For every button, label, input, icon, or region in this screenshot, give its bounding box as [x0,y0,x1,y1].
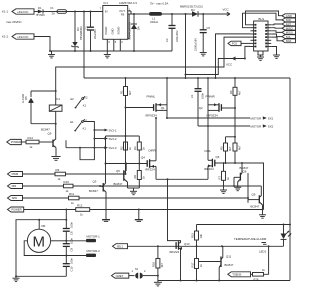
junction midline/led col [283,224,285,226]
svg-text:+6/24 DC: +6/24 DC [17,10,28,14]
junction lineB/Q2 drain [207,125,209,127]
svg-text:LL4148: LL4148 [21,94,25,103]
wire D1 to F1 [43,11,57,13]
svg-text:GND: GND [110,28,114,34]
junction right pair link [234,136,236,138]
flag SV2-1 [104,128,117,132]
wire DIR line across [73,185,261,187]
junction Ra/Rb link [125,135,127,137]
resistor R10 1k [64,180,74,193]
wire right pair link [226,136,236,138]
junction riser/pwm line [125,173,127,175]
svg-text:P6SMB30A: P6SMB30A [79,26,83,40]
svg-text:K1: K1 [83,127,87,131]
svg-text:BU1: BU1 [259,17,265,21]
wire flag MISO [271,27,282,30]
svg-text:E1: E1 [70,120,74,124]
wire CMET to SJ [129,275,135,277]
resistor R1 4k7 pullup [119,78,132,108]
junction alarm/R18 riser [268,245,270,247]
junction rail/left bus [15,275,17,277]
gnd Q8 emitter [234,187,241,190]
junction out/D4 [133,13,135,15]
svg-text:R15: R15 [190,233,194,238]
BU1 pin squares right column [265,24,267,47]
vcc feed down from output [185,14,187,78]
svg-text:BC847: BC847 [114,182,123,186]
resistor R4 4k7 pullup [229,78,242,108]
svg-text:BC847: BC847 [251,205,260,209]
wire R14 to Q9 base [39,141,53,143]
svg-text:DIR: DIR [12,184,17,188]
resistor R18 1k [253,268,266,281]
junction rail/sense [215,77,217,79]
svg-text:LM2574M-3.3: LM2574M-3.3 [119,1,137,5]
wire BU1 to relay feed [56,37,251,105]
svg-text:K1-1: K1-1 [2,10,8,14]
IC1 box LM2574M-3.3 [100,1,138,39]
junction gatelineR/R7 [223,162,225,164]
svg-text:K1-2: K1-2 [2,35,8,39]
ground bottom rail [154,281,162,286]
junction motor stem [38,219,40,221]
svg-text:SCL: SCL [286,35,292,39]
gnd right local [220,188,227,193]
gnd left local [130,188,137,195]
junction DIR/Q3 base [99,185,101,187]
wire switch B to SV2 column [80,122,94,160]
junction gatelineR/Q8 collector [241,162,243,164]
junction capbus/power line [65,209,67,211]
junction alarm/R16 [157,245,159,247]
LED1 [281,225,292,247]
junction capbus/top wire [65,219,67,221]
svg-text:SPD: SPD [12,196,18,200]
junction alarm/Q11 collector [221,245,223,247]
resistor R9 1k [55,168,66,181]
junction relay/D5 top [55,90,57,92]
svg-text:3A: 3A [52,12,55,16]
wire flag MOSI [271,31,282,33]
svg-text:10k: 10k [199,234,203,239]
svg-text:Q2: Q2 [199,106,203,110]
stub Q3 base [100,185,103,188]
BU1 right pin gnd [271,47,280,59]
wire vcc feed to BU1 [186,46,251,74]
wire D2 to VCC arrow [198,13,226,15]
stub above SV2-3 line [65,140,67,147]
wire L1 to D2 [162,13,192,15]
svg-text:GND: GND [286,14,292,18]
svg-text:R18: R18 [254,278,259,282]
svg-text:C10: C10 [70,266,74,271]
wire relay to Q9 [55,111,57,139]
junction capbus/motor right [65,240,67,242]
svg-text:4k7: 4k7 [237,90,241,95]
flag RST right [282,22,296,26]
gate line lower right [215,163,264,210]
flag CMET [112,273,129,278]
svg-text:MOTOR: MOTOR [251,116,262,120]
mosfet Q13 IRFZ24 [170,241,190,280]
svg-text:R3: R3 [133,146,137,150]
svg-text:C5: C5 [207,26,211,30]
junction lineA/Q4 drain [155,117,157,119]
svg-text:Q4: Q4 [141,156,145,160]
wire R18 riser [264,246,269,274]
wire flag SDA [271,37,282,41]
svg-text:Q3: Q3 [93,180,97,184]
svg-text:MOSI: MOSI [286,31,293,35]
wire D5 top branch [31,90,56,92]
resistor R3 [133,136,146,164]
resistor R11 1k [69,192,80,205]
svg-text:PC5: PC5 [232,42,238,46]
svg-text:C1: C1 [190,94,194,98]
svg-text:D2: D2 [84,96,88,100]
transistor Q8 BC847 upper [234,163,249,187]
ground bottom left [13,276,20,281]
wire SJ to R16 col [143,275,158,277]
svg-text:D1: D1 [84,119,88,123]
junction srcline/gnd drop [167,178,169,180]
transistor Q3 BC847 [89,136,106,219]
right bus vertical [289,78,291,281]
svg-text:Q1: Q1 [161,106,165,110]
motor line A [167,117,250,119]
svg-text:C3: C3 [85,26,89,30]
wire TSENS to R18 [251,273,253,275]
junction rail/vcc feed [185,77,187,79]
svg-text:R6: R6 [133,175,137,179]
svg-text:SDA: SDA [286,39,292,43]
wire R9 to Q5 base / riser [66,173,126,175]
gnd rail top [50,50,172,52]
flag TSENS [228,272,251,277]
wire flag DIR to R10 [23,185,64,187]
svg-text:Q8: Q8 [243,170,247,174]
wire SV2-3 line [66,147,104,149]
svg-text:R7: R7 [217,176,221,180]
svg-text:TSENS: TSENS [232,273,241,277]
flag DIR left [8,184,23,189]
flag SEL1 [113,244,128,249]
svg-text:MISO: MISO [286,27,293,31]
svg-text:Q5: Q5 [116,169,120,173]
svg-text:R11: R11 [69,192,74,196]
transistor Q5 BC847 [114,164,128,189]
junction gatelineR/R5 [225,162,227,164]
junction lineA/Q1 drain [166,117,168,119]
wire POWER2 line across [90,209,263,211]
svg-text:E2: E2 [71,97,75,101]
svg-text:SGND: SGND [117,27,121,35]
svg-text:Q9: Q9 [252,193,256,197]
junction SJ/R16 col [157,275,159,277]
svg-text:R10: R10 [64,180,70,184]
VCC arrow top [223,8,231,16]
junction vcc arrow branch [244,58,246,60]
svg-text:RST: RST [286,22,292,26]
junction gatelineL/column [125,163,127,165]
diode D5 [21,91,34,124]
svg-text:R5: R5 [219,146,223,150]
svg-text:IRFZ24: IRFZ24 [170,250,180,254]
svg-text:SV2-2: SV2-2 [109,137,117,141]
IC1 output pins right [128,11,131,38]
svg-text:LED1: LED1 [259,250,267,254]
connector BU1 box [254,17,268,51]
capacitor C5 2200u/16V [194,14,211,53]
junction gatelineL/Q5 collector [125,163,127,165]
svg-text:C2: C2 [165,38,169,42]
svg-text:D4: D4 [137,26,141,30]
junction rail/C3 [90,50,92,52]
junction rail/Q13 src [180,280,182,282]
ground symbol left [48,51,55,58]
source line lower left [156,178,208,180]
junction out/C5 [202,13,204,15]
resistor R8 [233,143,241,163]
wire F1 to IC1 [67,11,103,13]
svg-text:Q6: Q6 [216,155,220,159]
flag PWM left [8,172,23,177]
junction rail/Q1 [166,77,168,79]
hbridge supply rail [84,77,290,79]
motor M1 XM [27,220,50,253]
junction rail/Q11 emitter [218,280,220,282]
svg-text:D1: D1 [38,6,42,10]
ground symbol under IC1 [104,51,111,58]
VCC arrow mid [226,57,245,67]
motor right lead [51,240,67,242]
svg-text:+6/24 DC: +6/24 DC [17,35,28,39]
svg-text:Q13: Q13 [184,242,190,246]
junction rail/R4 [234,77,236,79]
wire DIR to Q10 collector [260,185,263,187]
svg-text:BC847: BC847 [225,263,234,267]
junction column / SV2-3 [93,147,95,149]
solder jumper SJ1 [132,267,147,279]
BU1 pin squares left column [255,24,257,47]
wire K1-2 to gnd rail [34,37,50,52]
svg-text:R4: R4 [229,90,233,94]
wire K1-1 to D1 [34,11,38,13]
mosfet Q2 IRF9Z34 [199,78,235,126]
wire MOTOR-1 tag [66,240,86,242]
resistor R6 [133,164,146,189]
TVS diode D3 P6SMB30A [72,12,83,52]
resistor R7 sense [217,163,230,188]
mosfet Q4 IRFZ24 [141,118,156,179]
svg-text:BC847: BC847 [89,189,98,193]
svg-text:2200u/16V: 2200u/16V [194,38,198,51]
ground Q9 [51,157,60,161]
svg-text:SX1: SX1 [268,116,274,120]
motor line B [198,125,250,127]
flag MOTOR_SX2 [251,124,274,128]
svg-text:100n: 100n [201,93,205,99]
bottom rail right [158,280,290,282]
wire BU1 sense down to rail [216,34,251,78]
junction rail/D3 [74,50,76,52]
junction rail/K1-2 [49,50,51,52]
wire SV2-2 branch [94,138,104,140]
junction gatelineL/R3 [138,163,140,165]
alarm pointer mark [262,243,267,245]
resistor R14 1k [26,136,39,149]
mosfet Q6 IRFZ24 [204,126,220,179]
svg-text:POWER: POWER [11,140,21,144]
svg-text:MOTOR-1: MOTOR-1 [87,234,101,238]
flag SV2-3 [104,146,117,150]
svg-text:IN: IN [105,10,108,14]
wire SV2-1 branch [94,129,104,131]
junction U box / SV2-3 [79,147,81,149]
flag MOTOR_SX1 [251,116,274,120]
svg-text:C6: C6 [70,231,74,235]
svg-text:IRFZ24: IRFZ24 [145,168,155,172]
flag SV2-2 [104,137,117,141]
wire MOTOR-2 tag [66,255,86,257]
svg-text:4k7: 4k7 [228,146,232,151]
cap bus vertical top stub [65,210,67,229]
svg-text:K1: K1 [57,97,61,101]
svg-text:POWER: POWER [11,208,21,212]
capacitor C10 100n [63,258,74,277]
local gnd left emitter line [128,187,140,189]
svg-text:VCC: VCC [223,8,229,12]
flag POWER left [7,139,21,144]
resistor R16 4k7 [152,246,165,280]
svg-text:PWMR: PWMR [206,95,215,99]
junction emitter col/line4 [262,209,264,211]
svg-text:Q9: Q9 [48,132,52,136]
svg-text:FB: FB [121,13,125,17]
svg-text:MOTOR: MOTOR [251,124,262,128]
junction alarm/R15 col [196,245,198,247]
svg-text:MOTOR-2: MOTOR-2 [87,249,101,253]
svg-text:TEMPERATURE ALARM: TEMPERATURE ALARM [234,237,267,241]
junction rail/R1 [125,77,127,79]
flag MOSI right [282,31,296,35]
motor top wire [16,220,66,277]
flag SCL right [282,35,296,39]
svg-text:DIRR: DIRR [149,149,156,153]
junction gatelineL/Q3 riser [105,163,107,165]
svg-text:IRF9Z34: IRF9Z34 [207,114,219,118]
flag GND right [282,14,296,18]
junction column / SV2-2 [93,138,95,140]
flag POWER2 left [8,207,24,212]
transistor Q11 BC847 [199,246,234,280]
BU1 left pin stubs [251,25,255,47]
capacitor C6 100n [63,222,74,244]
svg-text:PGND: PGND [104,27,108,35]
svg-text:IRFZ24: IRFZ24 [204,167,214,171]
transistor Q10 BC847 lower [248,186,263,210]
svg-text:R2: R2 [119,146,123,150]
junction out/C2 [171,13,173,15]
svg-text:IC1: IC1 [104,1,109,5]
diode D4 ES1B freewheel [128,14,141,51]
svg-text:F1: F1 [51,6,55,10]
wire flag to R14 [21,141,26,143]
svg-text:IRF9Z34: IRF9Z34 [146,114,158,118]
gate line lower left [106,163,148,165]
capacitor C2 220u/16V [165,14,179,51]
diode D1 BY500 [37,6,46,17]
flag SDA right [282,39,296,43]
svg-text:XM: XM [41,224,46,228]
junction gatelineR/R8 [234,162,236,164]
svg-text:VCC: VCC [226,63,232,67]
svg-text:SV2-1: SV2-1 [109,128,117,132]
bottom mid line [197,224,291,226]
svg-text:C9: C9 [70,248,74,252]
capacitor C9 100n [63,238,74,264]
junction out/vcc-down [185,13,187,15]
tag MOTOR-2 [86,249,100,257]
svg-text:3V - max 0.5A: 3V - max 0.5A [150,2,168,6]
resistor R2 [119,142,132,150]
junction rail/C7 [197,77,199,79]
svg-text:M: M [33,234,46,251]
resistor R17 1k [190,246,203,280]
ground symbol C5 [200,53,207,56]
diode D2 MBRS130LT3 [180,5,203,17]
relay K1 coil [49,97,62,111]
junction rail/R17 [196,280,198,282]
svg-text:4k7: 4k7 [128,90,132,95]
svg-text:SV2-3: SV2-3 [109,146,117,150]
junction top wire / D3 [74,11,76,13]
gnd emitter col [259,210,266,219]
wire flag RST [271,23,282,26]
svg-text:220u/16V: 220u/16V [175,30,179,42]
svg-text:100n: 100n [70,258,74,264]
svg-text:SCK: SCK [286,18,292,22]
wire R1 column down [125,108,127,175]
wire flag POWER2 to R12 [24,209,76,211]
wire flag GND wrap over top [246,11,283,25]
wire flag SCL [271,34,282,37]
svg-text:4k7: 4k7 [160,263,164,268]
svg-text:R14: R14 [28,136,34,140]
IC1 bottom pins [107,39,123,51]
junction top wire / C3 [90,11,92,13]
svg-text:SS14-LL/ES1B: SS14-LL/ES1B [128,22,132,40]
alarm net line [128,245,284,247]
svg-text:MBRS130LT3 (D2): MBRS130LT3 (D2) [180,5,203,9]
junction DIR/Q8 base branch [233,185,235,187]
svg-text:OUT: OUT [119,9,125,13]
wire flag SPD to R11 [23,197,69,199]
flag K1-2 +6/24 DC [2,34,34,39]
junction rightbus/bottom line [289,224,291,226]
capacitor C3 20u/35V [85,12,97,52]
junction gate line/R1 [125,107,127,109]
svg-text:BY500: BY500 [37,13,46,17]
wire SPD line across [79,197,248,199]
bottom left rail [16,275,66,277]
junction relay/D5 bottom [55,123,57,125]
junction rail/D4 [133,50,135,52]
mosfet Q1 IRF9Z34 [126,78,168,118]
wire Ra-Rb link [106,135,140,137]
svg-text:K1: K1 [83,104,87,108]
flag SCK right [282,18,296,22]
